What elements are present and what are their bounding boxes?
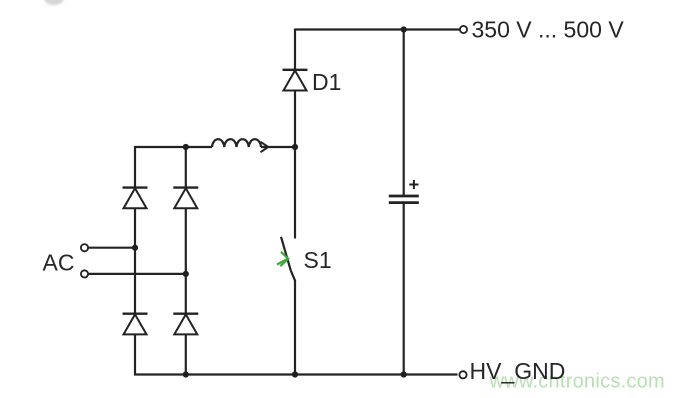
wire capacitor branch upper bbox=[403, 30, 405, 196]
node junction AC lower / right branch bbox=[183, 271, 189, 277]
capacitor C (electrolytic) bbox=[389, 196, 419, 203]
wire D1 anode to node A bbox=[294, 91, 296, 149]
wire inductor to node A bbox=[261, 146, 295, 148]
wire capacitor branch lower bbox=[403, 203, 405, 376]
wire right branch middle bbox=[185, 208, 187, 313]
wire AC lower lead bbox=[89, 273, 186, 275]
arrow current direction bbox=[261, 142, 269, 152]
wire left branch lower bbox=[134, 334, 136, 375]
node junction AC upper / left branch bbox=[132, 245, 138, 251]
wire left branch middle bbox=[134, 208, 136, 313]
faint cropped logo top-left bbox=[42, 0, 64, 7]
wire bridge output to inductor bbox=[135, 147, 212, 148]
svg-text:AC: AC bbox=[43, 250, 75, 276]
wire bridge right branch upper bbox=[185, 146, 187, 187]
terminal HV_GND bbox=[459, 371, 466, 378]
wire switch upper lead bbox=[294, 146, 296, 239]
diode D1 bbox=[283, 70, 308, 91]
wire D1 branch upper bbox=[294, 29, 296, 70]
green actuation arrow at S1 bbox=[277, 252, 288, 266]
node junction bottom rail / capacitor bbox=[401, 371, 407, 377]
terminal AC upper bbox=[81, 244, 88, 251]
svg-text:S1: S1 bbox=[304, 247, 332, 273]
wire AC upper lead bbox=[89, 247, 136, 249]
svg-text:350 V ... 500 V: 350 V ... 500 V bbox=[472, 16, 625, 42]
terminal 350V output bbox=[460, 26, 467, 33]
terminal AC lower bbox=[81, 270, 88, 277]
wire right branch lower bbox=[185, 334, 187, 375]
capacitor plus polarity bbox=[409, 180, 418, 189]
bridge diode lower-left bbox=[123, 314, 148, 335]
wire top rail bbox=[295, 28, 460, 30]
node A inductor/D1/S1 junction bbox=[292, 144, 298, 150]
bridge diode lower-right bbox=[173, 314, 198, 335]
node junction top rail / capacitor bbox=[401, 26, 407, 32]
wire switch lower lead bbox=[294, 280, 296, 376]
svg-text:HV_GND: HV_GND bbox=[470, 358, 566, 384]
node junction bottom rail / switch bbox=[292, 371, 298, 377]
switch S1 bbox=[281, 237, 295, 281]
wire bridge left branch upper bbox=[134, 147, 136, 187]
bridge diode upper-right bbox=[173, 188, 198, 209]
node junction bottom rail / right branch bbox=[183, 371, 189, 377]
wire bottom rail bbox=[134, 373, 458, 375]
node junction top wire / right branch bbox=[183, 144, 189, 150]
svg-text:D1: D1 bbox=[312, 69, 341, 95]
bridge diode upper-left bbox=[123, 188, 148, 209]
inductor L bbox=[212, 139, 261, 147]
